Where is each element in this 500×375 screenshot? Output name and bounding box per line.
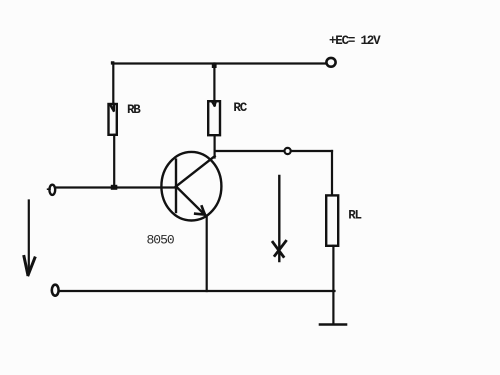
transistor Q1 (8050) <box>161 152 221 221</box>
label RC <box>233 101 247 115</box>
power terminal EC <box>326 58 335 67</box>
wire output collector to RL branch <box>215 150 332 152</box>
label +EC= 12V <box>329 34 381 48</box>
node output terminal <box>285 148 291 154</box>
label RL <box>348 208 361 222</box>
resistor RL <box>326 195 338 245</box>
wire RB to base junction <box>113 135 115 188</box>
wire RB branch from top rail <box>112 62 113 104</box>
wire top supply rail <box>112 62 326 64</box>
label 8050 <box>147 233 174 248</box>
svg-text:RL: RL <box>348 208 361 222</box>
resistor RB <box>109 104 117 135</box>
svg-text:8050: 8050 <box>147 233 174 248</box>
wire emitter down <box>206 216 208 292</box>
input terminal <box>48 185 56 195</box>
wire input to base <box>56 186 175 188</box>
wire RL branch down <box>331 151 333 195</box>
arrow input current direction (left) <box>24 201 35 275</box>
node RC top junction <box>212 64 217 68</box>
wire bottom rail <box>59 290 335 292</box>
wire RC branch from top rail <box>213 64 215 102</box>
node base junction <box>111 185 118 190</box>
label RB <box>127 103 141 117</box>
wire collector to RC <box>214 135 216 157</box>
wire RL to bottom rail and ground drop <box>332 246 334 324</box>
svg-text:RC: RC <box>233 101 247 115</box>
svg-text:RB: RB <box>127 103 141 117</box>
input ground terminal <box>52 285 59 296</box>
resistor RC <box>208 101 220 135</box>
ground <box>320 323 346 326</box>
svg-text:+EC= 12V: +EC= 12V <box>329 34 381 48</box>
arrow output current direction (right) <box>273 176 286 261</box>
